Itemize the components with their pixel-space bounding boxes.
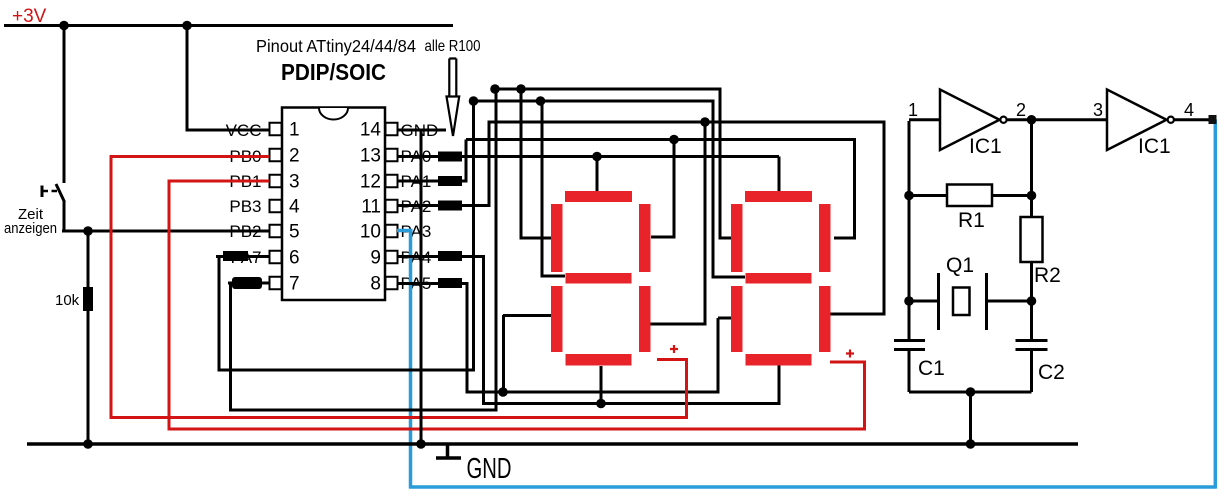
svg-text:PB2: PB2 (229, 222, 261, 241)
wire segment-d line (484, 364, 781, 404)
wire PA1 pin12 (397, 140, 468, 182)
wire PA5 pin8 (397, 284, 469, 394)
svg-text:+3V: +3V (12, 6, 47, 27)
svg-text:C2: C2 (1038, 361, 1065, 384)
wire blue bottom run (409, 485, 1217, 489)
display DIS2 segment f (731, 204, 743, 272)
svg-text:VCC: VCC (226, 121, 262, 140)
wire blue right riser to IC1 pin4 (1214, 120, 1218, 489)
svg-text:4: 4 (289, 197, 300, 218)
capacitor C2 (1016, 341, 1048, 393)
display DIS1 segment a (565, 191, 632, 202)
svg-text:Q1: Q1 (946, 254, 974, 277)
wire PB1 red anode digit2 (169, 181, 865, 429)
svg-text:1: 1 (289, 120, 300, 141)
svg-text:IC1: IC1 (1138, 135, 1171, 158)
junction f bus digit1 (516, 84, 526, 94)
node plus digit1 (670, 345, 678, 353)
IC notch (319, 108, 348, 120)
resistor R100 PA6 (232, 277, 262, 289)
svg-text:12: 12 (360, 172, 381, 193)
pin boxes right 14-8 (386, 123, 398, 290)
node pin4 to blue (1209, 115, 1217, 124)
junction e line digit1 (498, 387, 508, 397)
svg-text:4: 4 (1184, 100, 1194, 120)
arrow to resistors (449, 59, 456, 97)
pin numbers left (289, 120, 300, 295)
wire GND bottom rail (27, 442, 1078, 446)
svg-text:IC1: IC1 (969, 135, 1002, 158)
resistor R100 PA7 (223, 251, 248, 261)
display DIS1 segment g (566, 273, 632, 284)
display DIS2 segment a (745, 191, 812, 202)
wire digit1 a stub (596, 157, 599, 193)
display DIS2 segment g (746, 273, 812, 284)
wire segment-c bus (489, 122, 886, 326)
svg-text:3: 3 (1093, 100, 1103, 120)
junction Q1 right (1027, 296, 1037, 306)
display DIS1 segment f (551, 204, 563, 272)
wire +3V rail to switch (63, 24, 66, 183)
display DIS1 segment b (639, 204, 651, 272)
junction rail 10k (83, 439, 93, 449)
wire node2 down (1030, 120, 1033, 217)
wire R1 right (992, 194, 1032, 197)
junction node 2 (1027, 115, 1037, 125)
svg-text:3: 3 (289, 172, 300, 193)
wire osc to rail (969, 392, 972, 444)
svg-text:2: 2 (1016, 100, 1026, 120)
display DIS1 segment c (639, 286, 651, 352)
wire PA0 pin13 segment-a line (397, 155, 779, 158)
wire IC GND to rail (420, 131, 423, 444)
Q1 plates (939, 273, 987, 330)
junction R1 left (904, 191, 914, 201)
svg-text:R2: R2 (1034, 264, 1061, 287)
wire blue vertical down (409, 231, 413, 489)
junction on +3V rail at VCC branch (182, 21, 192, 31)
junction Q1 left (904, 296, 914, 306)
wire segment-b bus (466, 140, 856, 240)
wire Q1 right (987, 300, 1032, 303)
svg-text:10k: 10k (55, 292, 80, 309)
wire R1 left (909, 194, 947, 197)
junction PB2 / 10k (83, 226, 93, 236)
wire IC1 pin1 input (909, 120, 940, 302)
junction osc bottom (966, 387, 976, 397)
svg-text:14: 14 (360, 120, 382, 141)
wire inverter A out to inverter B in (1008, 118, 1108, 121)
resistor R100 PA1 (438, 176, 462, 186)
junction PA0 to digit1 a (592, 152, 602, 162)
resistor R2 (1021, 217, 1043, 262)
svg-text:13: 13 (360, 146, 381, 167)
junction f bus left (490, 84, 500, 94)
display DIS2 segment b (819, 204, 831, 272)
wire GND pin14 (397, 129, 446, 132)
svg-text:Pinout ATtiny24/44/84: Pinout ATtiny24/44/84 (256, 36, 416, 56)
display DIS2 segment d (746, 354, 812, 366)
junction b bus digit1 (669, 135, 679, 145)
resistor R100 PA0 (438, 152, 462, 162)
display DIS1 segment e (551, 286, 563, 352)
svg-text:C1: C1 (918, 357, 945, 380)
display DIS2 segment c (819, 286, 831, 352)
junction R1 right (1027, 191, 1037, 201)
display DIS1 segment d (566, 354, 632, 366)
svg-text:6: 6 (289, 248, 300, 269)
svg-text:5: 5 (289, 222, 300, 243)
svg-text:11: 11 (361, 197, 381, 218)
junction rail oscillator (966, 439, 976, 449)
svg-text:PB3: PB3 (229, 197, 261, 216)
wire +3V rail to VCC pin1 (187, 25, 269, 132)
wire digit2 a stub (778, 157, 781, 193)
Q1 body (953, 288, 970, 316)
svg-text:9: 9 (370, 248, 381, 269)
ground symbol (436, 444, 461, 458)
svg-text:PDIP/SOIC: PDIP/SOIC (281, 59, 386, 85)
junction g bus digit1 (536, 96, 546, 106)
display DIS2 segment e (731, 286, 743, 352)
capacitor C1 (894, 301, 925, 392)
wire switch to PB2 line (63, 201, 66, 233)
switch S1 blade (56, 184, 65, 202)
wire PA3 pin10 blue (397, 229, 413, 233)
junction g bus left (469, 96, 479, 106)
wire segment-g bus (474, 101, 746, 279)
wire PA2 pin11 (397, 121, 491, 206)
wire segment-f bus (494, 89, 732, 240)
pin numbers right (360, 120, 382, 295)
op-amp IC1 inverter B (1107, 90, 1167, 151)
resistor R100 PA5 (438, 278, 462, 288)
junction on +3V rail at switch branch (59, 21, 69, 31)
switch S1 actuator (41, 186, 44, 198)
wire oscillator bottom (909, 391, 1032, 394)
svg-text:1: 1 (908, 100, 918, 120)
svg-text:2: 2 (289, 146, 300, 167)
wire PA6 pin7 (228, 88, 498, 412)
junction rail IC gnd (416, 439, 426, 449)
svg-text:GND: GND (467, 453, 512, 485)
wire +3V top rail (4, 24, 453, 27)
svg-text:R1: R1 (958, 209, 985, 232)
wire R2 bottom (1030, 262, 1033, 341)
wire junction to 10k (87, 231, 90, 288)
svg-text:alle R100: alle R100 (425, 38, 481, 55)
junction d line digit1 (596, 399, 606, 409)
wire Q1 left (909, 300, 939, 303)
svg-text:anzeigen: anzeigen (4, 220, 57, 237)
resistor R100 PA4 (438, 251, 462, 261)
node plus digit2 (846, 350, 854, 358)
op IC ATtiny body (282, 108, 385, 301)
wire PA7 pin6 (216, 255, 475, 372)
junction c bus digit1 (700, 117, 710, 127)
resistor 10k (83, 287, 93, 311)
wire 10k to GND rail (87, 311, 90, 444)
svg-text:8: 8 (370, 274, 381, 295)
wire PB0 red anode digit1 (111, 157, 687, 418)
pin boxes left 1-7 (270, 123, 282, 290)
resistor R100 PA2 (438, 201, 462, 211)
svg-text:7: 7 (289, 274, 300, 295)
wire PA4 pin9 (397, 101, 485, 405)
op-amp IC1 inverter A (940, 90, 1000, 151)
svg-text:10: 10 (360, 222, 381, 243)
wire PB2 pin5 (62, 230, 269, 233)
wire inverter B out (1174, 118, 1211, 121)
wire segment-e line (466, 315, 732, 392)
resistor R1 (947, 185, 992, 207)
